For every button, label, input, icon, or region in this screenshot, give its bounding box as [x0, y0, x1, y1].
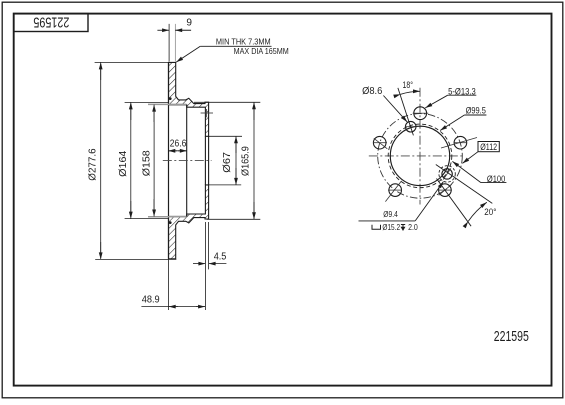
leader MIN THK / MAX DIA — [176, 46, 271, 62]
svg-text:Ø9.4: Ø9.4 — [383, 209, 398, 219]
bolt hole ticks — [373, 113, 477, 201]
Ø9.4 hole with counterbore — [442, 169, 452, 179]
dashed circle — [388, 124, 452, 188]
svg-text:9: 9 — [186, 17, 192, 29]
svg-text:4.5: 4.5 — [214, 252, 227, 263]
grey machined surface lines — [148, 103, 187, 105]
bolt holes — [373, 107, 466, 197]
counterbore callout — [372, 225, 381, 229]
dimension Ø165.9 — [194, 102, 260, 219]
20deg arc — [468, 202, 487, 221]
svg-text:Ø8.6: Ø8.6 — [362, 86, 383, 97]
hub bore walls between halves — [204, 136, 206, 185]
drum interior right edge — [186, 105, 188, 217]
dimension 48.9 — [141, 259, 205, 310]
svg-text:Ø165.9: Ø165.9 — [240, 146, 251, 176]
dimension: 9 (top) — [157, 24, 191, 62]
Ø8.6 hole — [405, 121, 416, 132]
dimension Ø164 — [125, 102, 168, 218]
dimension Ø67 — [209, 136, 242, 185]
svg-text:MAX DIA 165MM: MAX DIA 165MM — [234, 46, 289, 56]
svg-text:221595: 221595 — [33, 14, 69, 31]
svg-text:20°: 20° — [484, 207, 496, 218]
svg-text:Ø277.6: Ø277.6 — [87, 148, 98, 181]
svg-text:Ø158: Ø158 — [141, 150, 152, 176]
solid circle — [390, 126, 449, 185]
centerline — [163, 160, 212, 162]
svg-text:26.6: 26.6 — [170, 139, 187, 150]
Ø112 boxed — [478, 142, 499, 152]
20 deg leg through bolt hole3 — [437, 179, 472, 227]
18deg arc — [401, 91, 421, 94]
bolt circle dash-dot — [378, 114, 463, 199]
svg-text:Ø112: Ø112 — [480, 142, 497, 153]
centerlines — [419, 88, 421, 205]
svg-text:MIN THK 7.3MM: MIN THK 7.3MM — [216, 36, 271, 46]
dimension Ø158 — [153, 105, 155, 217]
svg-text:221595: 221595 — [494, 328, 529, 345]
disc cross-section bottom half (hatched) — [169, 185, 209, 259]
dimension Ø277.6 — [95, 62, 177, 259]
18deg slant leg through Ø8.6 hole — [398, 88, 414, 135]
title box top-left — [14, 14, 88, 32]
disc cross-section top half (hatched) — [169, 62, 209, 136]
svg-text:18°: 18° — [403, 80, 414, 91]
svg-text:Ø67: Ø67 — [222, 152, 233, 173]
svg-text:Ø15.2: Ø15.2 — [382, 222, 400, 232]
20 deg leg through Ø9.4 — [436, 165, 493, 204]
svg-text:Ø164: Ø164 — [118, 150, 129, 177]
disc left face full line — [168, 62, 170, 258]
svg-text:2.0: 2.0 — [408, 222, 418, 232]
set screw hole cross on hub wall — [201, 112, 213, 114]
svg-text:48.9: 48.9 — [142, 294, 160, 305]
dimension 26.6 — [168, 150, 187, 152]
svg-text:Ø99.5: Ø99.5 — [466, 106, 486, 116]
dimension 4.5 — [193, 222, 226, 310]
